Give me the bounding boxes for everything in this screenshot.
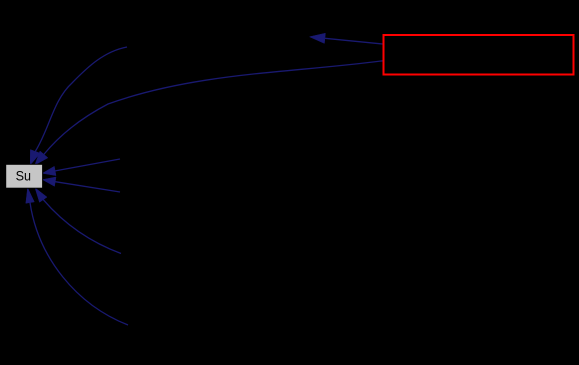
wire: edge from hidden right node 1 to node Su <box>42 159 120 176</box>
node: red highlighted box (current item) <box>384 35 574 75</box>
wire: edge from hidden top node to node Su (steep top curve) <box>30 47 127 165</box>
svg-text:Su: Su <box>16 168 31 184</box>
wire: edge from hidden lower node to node Su (mid bottom curve) <box>35 188 121 254</box>
wire: edge from hidden bottom node to node Su (long bottom curve) <box>26 188 128 325</box>
wire: edge from hidden right node 2 to node Su <box>42 177 120 192</box>
wire: edge from red node to node Su (long curve) <box>35 61 383 165</box>
wire: edge from red node to hidden top node (leftward arrow) <box>310 33 383 44</box>
node Su (gray box) <box>6 164 43 188</box>
